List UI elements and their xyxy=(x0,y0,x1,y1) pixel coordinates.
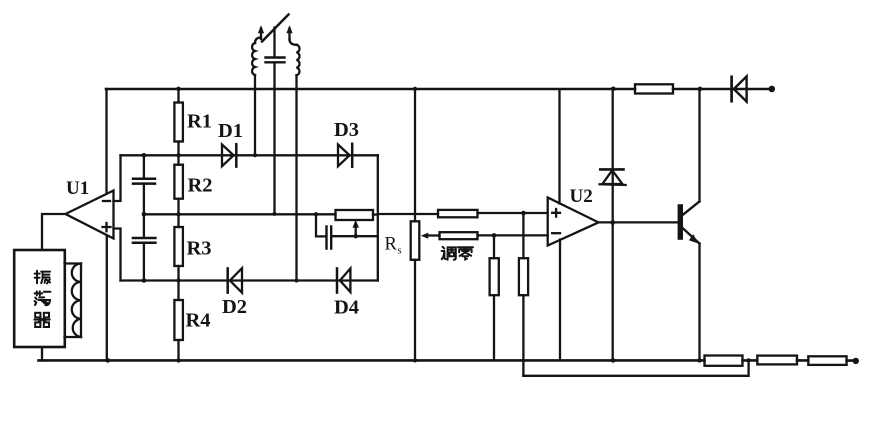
svg-text:R3: R3 xyxy=(187,238,212,260)
svg-text:U1: U1 xyxy=(66,178,89,199)
svg-text:U2: U2 xyxy=(570,186,593,207)
svg-text:s: s xyxy=(398,246,402,257)
svg-text:D2: D2 xyxy=(222,296,247,318)
svg-text:D4: D4 xyxy=(334,297,359,319)
svg-text:D3: D3 xyxy=(334,119,359,141)
svg-text:R2: R2 xyxy=(188,175,213,197)
svg-text:R: R xyxy=(385,235,398,255)
svg-text:R1: R1 xyxy=(187,111,212,133)
svg-text:R4: R4 xyxy=(186,310,211,332)
svg-text:D1: D1 xyxy=(218,120,243,142)
